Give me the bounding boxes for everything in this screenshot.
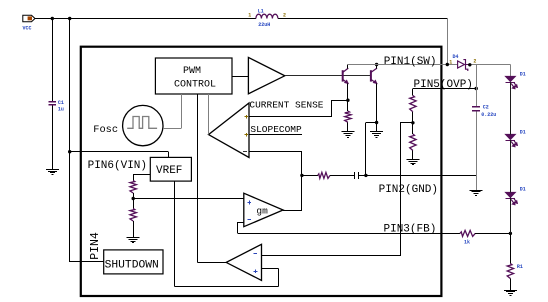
svg-text:CONTROL: CONTROL bbox=[174, 79, 216, 90]
svg-text:PIN5(OVP): PIN5(OVP) bbox=[414, 79, 473, 91]
svg-text:gm: gm bbox=[256, 206, 268, 217]
svg-text:2: 2 bbox=[283, 12, 286, 18]
svg-text:SLOPECOMP: SLOPECOMP bbox=[250, 124, 302, 135]
svg-text:PIN1(SW): PIN1(SW) bbox=[384, 56, 437, 68]
svg-text:VREF: VREF bbox=[156, 165, 182, 177]
svg-text:D1: D1 bbox=[520, 130, 526, 136]
svg-text:PIN2(GND): PIN2(GND) bbox=[379, 184, 438, 196]
svg-text:1: 1 bbox=[449, 59, 452, 65]
svg-text:PIN3(FB): PIN3(FB) bbox=[384, 224, 437, 236]
svg-text:R1: R1 bbox=[517, 264, 523, 270]
svg-text:22uH: 22uH bbox=[258, 22, 270, 28]
svg-text:CURRENT SENSE: CURRENT SENSE bbox=[249, 100, 323, 111]
svg-text:D1: D1 bbox=[520, 186, 526, 192]
svg-text:PIN6(VIN): PIN6(VIN) bbox=[88, 160, 147, 172]
svg-text:0.22u: 0.22u bbox=[481, 112, 496, 118]
svg-text:VCC: VCC bbox=[23, 26, 32, 32]
svg-text:L1: L1 bbox=[258, 8, 264, 14]
svg-text:1k: 1k bbox=[464, 240, 470, 246]
svg-text:1u: 1u bbox=[58, 107, 64, 113]
svg-text:SHUTDOWN: SHUTDOWN bbox=[105, 260, 159, 272]
svg-text:D4: D4 bbox=[453, 54, 459, 60]
svg-text:Fosc: Fosc bbox=[93, 124, 118, 136]
svg-text:C2: C2 bbox=[483, 105, 489, 111]
svg-text:2: 2 bbox=[473, 59, 476, 65]
svg-text:PWM: PWM bbox=[183, 66, 201, 77]
svg-text:C1: C1 bbox=[58, 100, 64, 106]
svg-text:D1: D1 bbox=[520, 72, 526, 78]
svg-text:PIN4: PIN4 bbox=[89, 232, 102, 260]
svg-text:1: 1 bbox=[248, 12, 251, 18]
